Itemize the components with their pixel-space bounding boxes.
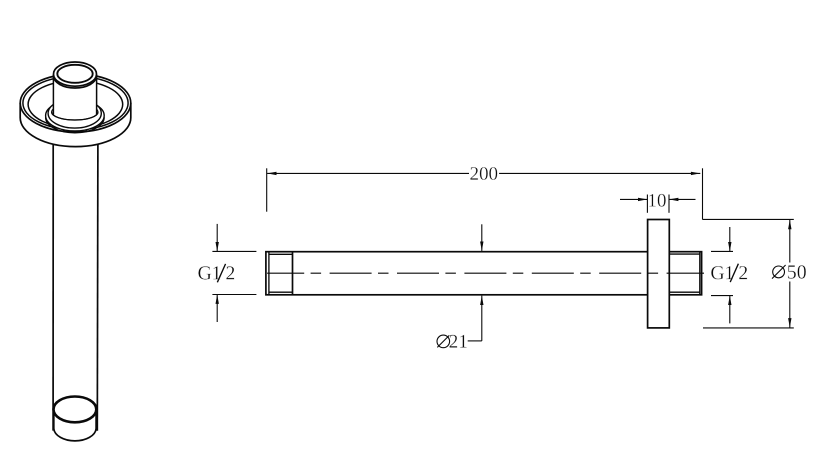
- dim text 10: [649, 194, 666, 207]
- flange disc rect: [648, 220, 670, 328]
- dimension / thin line layer: [212, 168, 793, 347]
- dim 200: right extension line: [702, 168, 704, 219]
- dim D50: dimension line segments: [789, 220, 791, 263]
- dim 10: left extension bar: [646, 195, 648, 213]
- dim text 200: [470, 167, 497, 180]
- tube outline rect: [266, 252, 702, 295]
- dim text 50: [788, 265, 806, 279]
- dim D21: top arrow: [481, 224, 483, 251]
- left thread runout line: [292, 252, 294, 295]
- left thread minor-diameter inner lines: [269, 252, 293, 294]
- pipe stub left edge: [52, 75, 54, 115]
- dim 200: right arrowhead: [691, 172, 700, 175]
- text layer: [198, 167, 806, 348]
- dim 200: dimension line segments: [267, 172, 469, 174]
- pipe stub top lip lower arc: [54, 76, 97, 88]
- dim D21: bottom arrow with leader: [481, 296, 483, 341]
- tube bottom cap bottom arc: [54, 429, 96, 441]
- thread label G1/2 right: [711, 264, 747, 282]
- collar hole edge ellipse (back portion hidden by pipe): [52, 104, 98, 120]
- escutcheon cavity floor ellipse: [28, 81, 123, 128]
- dim 200: left extension line: [266, 168, 268, 211]
- diameter symbol for D21: [437, 335, 450, 348]
- G1/2 left: extension lines: [212, 250, 256, 252]
- pipe stub bore ellipse: [57, 65, 92, 83]
- flange top extension line: [703, 218, 794, 220]
- right thread minor-diameter inner lines: [670, 252, 700, 294]
- collar step 2 lower bottom arc (double line): [46, 117, 105, 132]
- flange bottom extension line: [703, 327, 794, 329]
- escutcheon cup silhouette (outer ellipse top + wall + bottom arc): [20, 74, 131, 147]
- dim 10: left arrow line: [620, 198, 647, 200]
- escutcheon rim inner edge ellipse: [23, 76, 128, 129]
- tube bottom end heavy ellipse: [54, 397, 97, 423]
- escutcheon cup outer-rim bottom arc: [20, 103, 131, 132]
- collar step 2 (lower boss ring): [46, 100, 105, 131]
- dim 10: right extension bar: [668, 195, 670, 213]
- tube bottom cap right edge: [95, 411, 97, 430]
- pipe stub top outer ellipse: [54, 62, 97, 86]
- dim 200: left arrowhead: [267, 172, 276, 175]
- G1/2 right: extension lines: [711, 250, 733, 252]
- G1/2 right: bottom arrow: [729, 296, 731, 324]
- tube bottom cap left edge: [53, 411, 55, 430]
- G1/2 right: top arrow: [729, 227, 731, 251]
- thread label G1/2 left: [198, 264, 234, 282]
- pipe stub right edge: [96, 75, 98, 115]
- diameter symbol for D50: [773, 266, 785, 278]
- centerline (dash-dot) of tube: [267, 272, 704, 274]
- G1/2 left: top arrow: [216, 224, 218, 252]
- pipe stub body (white mask): [54, 70, 97, 115]
- dim text 21: [449, 335, 466, 348]
- dim 10: right arrow line: [669, 198, 696, 200]
- collar step 1 (upper boss ring): [48, 99, 101, 129]
- G1/2 left: bottom arrow: [216, 295, 218, 323]
- collar hole edge front arc across pipe: [52, 112, 98, 120]
- wire: main tube side edges (isometric): [52, 140, 54, 431]
